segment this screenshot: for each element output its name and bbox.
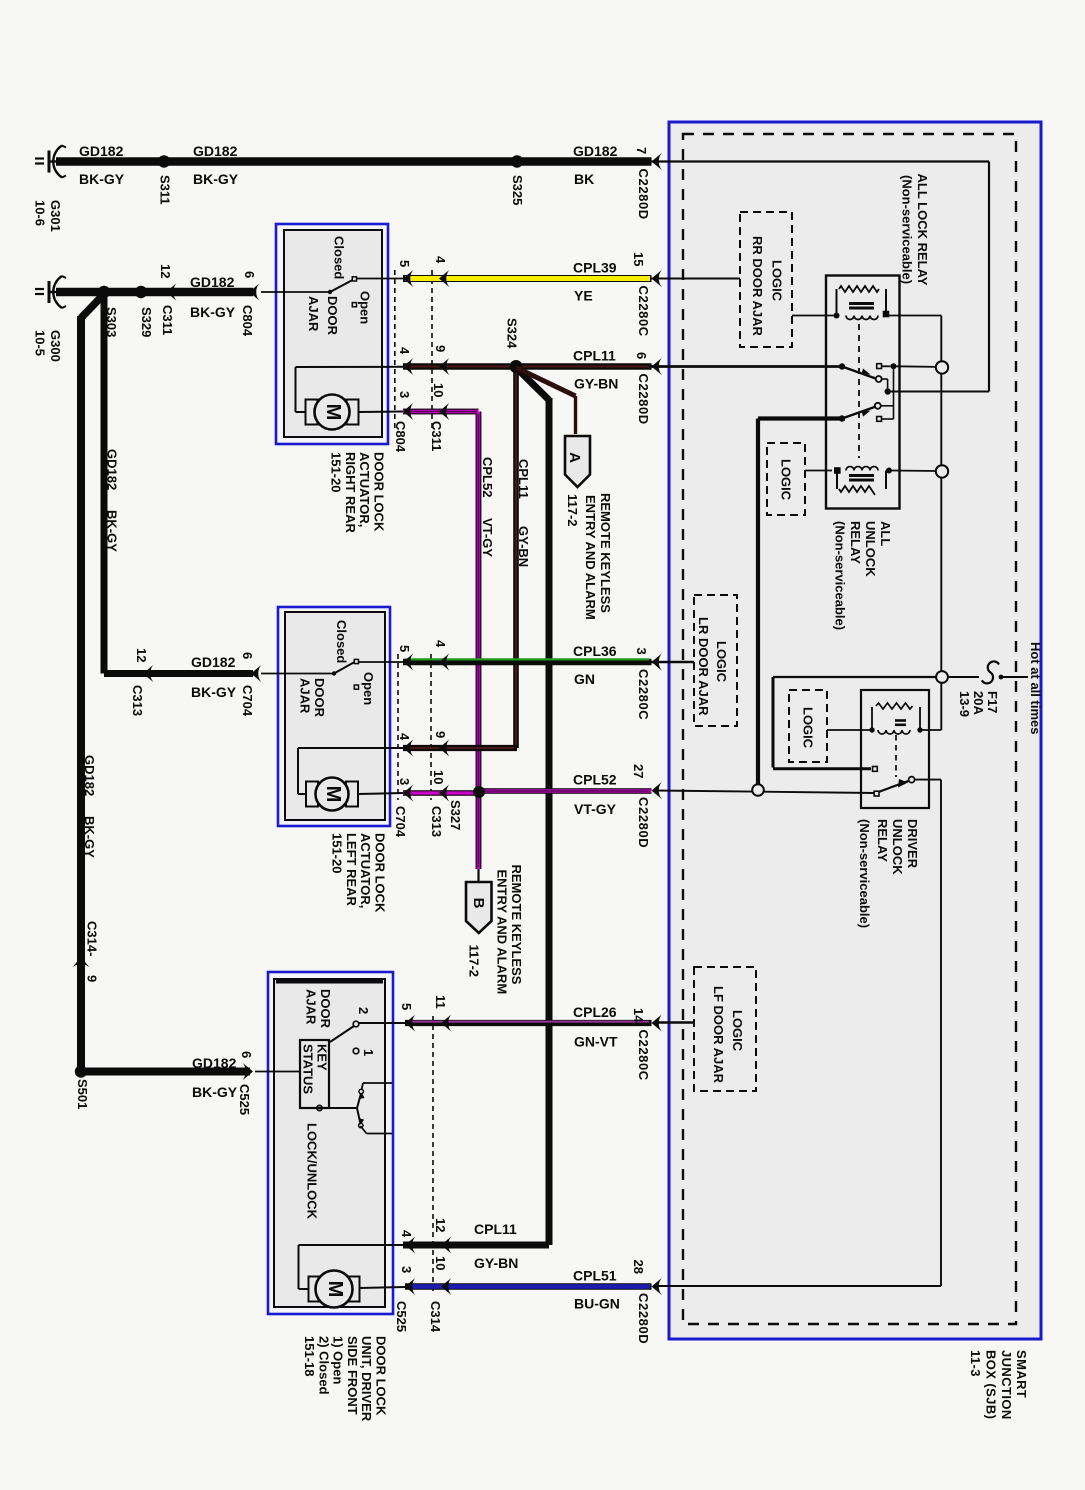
splice S329 <box>135 286 154 338</box>
all lock relay switch <box>839 363 938 388</box>
label CPL11 GY-BN <box>573 348 618 392</box>
svg-text:9: 9 <box>433 731 448 738</box>
svg-text:G300: G300 <box>48 330 63 362</box>
splice S325 <box>510 155 525 205</box>
svg-text:14: 14 <box>631 1008 646 1023</box>
wire GD182 BK-GY top <box>56 157 652 165</box>
wire CPL36 GN (LR to SJB) <box>403 659 652 662</box>
label C525 C314 below driver <box>394 1301 443 1333</box>
svg-text:CPL11: CPL11 <box>573 348 616 364</box>
label CPL36 GN <box>573 643 617 687</box>
svg-text:CPL11: CPL11 <box>474 1221 517 1237</box>
svg-text:BOX (SJB): BOX (SJB) <box>984 1350 999 1419</box>
svg-text:151-18: 151-18 <box>302 1336 317 1376</box>
wire GD182 into SJB <box>652 162 990 392</box>
svg-text:AJAR: AJAR <box>304 989 319 1025</box>
label REMOTE KEYLESS ENTRY AND ALARM (B) <box>495 865 525 995</box>
label CPL26 GN-VT <box>573 1004 618 1050</box>
logic box (driver unlock relay coil) <box>789 690 827 762</box>
connector arrow C2280D pin 27 <box>631 764 662 848</box>
label ALL UNLOCK RELAY (Non-serviceable) <box>833 521 894 630</box>
wire all-lock coil to bus <box>889 315 941 317</box>
svg-text:Open: Open <box>358 291 373 324</box>
svg-text:UNLOCK: UNLOCK <box>863 521 878 577</box>
svg-text:BK: BK <box>574 171 594 187</box>
svg-text:ACTUATOR,: ACTUATOR, <box>357 452 372 527</box>
svg-text:6: 6 <box>239 1051 254 1058</box>
svg-text:LF DOOR AJAR: LF DOOR AJAR <box>711 986 726 1084</box>
svg-text:UNLOCK: UNLOCK <box>890 819 905 875</box>
svg-text:117-2: 117-2 <box>565 494 580 527</box>
svg-text:DRIVER: DRIVER <box>905 819 920 869</box>
svg-text:VT-GY: VT-GY <box>574 801 617 817</box>
svg-text:GD182: GD182 <box>190 274 235 290</box>
logic box LR DOOR AJAR <box>694 595 737 726</box>
label SMART JUNCTION BOX (SJB) 11-3 <box>968 1350 1029 1420</box>
svg-text:CPL26: CPL26 <box>573 1004 617 1020</box>
svg-text:ENTRY AND ALARM: ENTRY AND ALARM <box>495 870 510 995</box>
svg-text:ACTUATOR,: ACTUATOR, <box>358 833 373 908</box>
driver unlock relay switch <box>873 767 915 797</box>
svg-text:C314-: C314- <box>85 921 100 956</box>
svg-text:4: 4 <box>433 256 448 264</box>
pin arrow 4 (driver) <box>399 1230 416 1254</box>
svg-text:BK-GY: BK-GY <box>105 510 120 552</box>
svg-text:S311: S311 <box>158 175 173 205</box>
smart junction box (SJB) outline <box>669 122 1041 1339</box>
svg-text:10: 10 <box>433 1256 448 1270</box>
label DOOR LOCK ACTUATOR LEFT REAR 151-20 <box>330 833 388 913</box>
driver unlock relay coil K3 <box>869 703 922 734</box>
svg-text:BK-GY: BK-GY <box>193 171 239 187</box>
wire CPL39 YE yellow <box>403 275 652 282</box>
svg-text:28: 28 <box>631 1260 646 1274</box>
label G301 10-6 <box>33 200 64 232</box>
terminal ring (all lock) <box>936 361 948 373</box>
svg-text:LEFT REAR: LEFT REAR <box>344 833 359 907</box>
svg-text:S327: S327 <box>448 800 463 830</box>
label DOOR LOCK ACTUATOR RIGHT REAR 151-20 <box>329 452 387 534</box>
svg-text:5: 5 <box>397 645 412 652</box>
ground G301 <box>35 146 66 178</box>
label GD182 BK-GY (driver) <box>192 1055 238 1100</box>
label CPL52 VT-GY vertical <box>480 457 495 557</box>
svg-text:6: 6 <box>242 271 257 278</box>
svg-text:DOOR: DOOR <box>318 989 333 1029</box>
thick wire all-unlock switch to CPL52 ring <box>758 419 845 785</box>
svg-text:C313: C313 <box>429 806 444 837</box>
svg-text:12: 12 <box>158 264 173 278</box>
svg-text:LOCK/UNLOCK: LOCK/UNLOCK <box>305 1123 320 1220</box>
svg-text:C311: C311 <box>160 305 175 335</box>
motor M (driver) <box>309 1271 360 1308</box>
splice S501 <box>75 1065 90 1109</box>
svg-text:DOOR: DOOR <box>312 678 327 718</box>
svg-text:7: 7 <box>634 147 649 154</box>
relay box DRIVER UNLOCK <box>861 690 929 808</box>
svg-text:117-2: 117-2 <box>467 945 482 978</box>
connector arrow C311 pin 12 <box>158 264 177 335</box>
svg-text:27: 27 <box>631 764 646 778</box>
svg-text:UNIT, DRIVER: UNIT, DRIVER <box>359 1336 374 1422</box>
svg-text:GD182: GD182 <box>191 654 236 670</box>
label GD182 BK-GY (LR) <box>191 654 237 700</box>
connector arrow C525 pin 6 (driver) <box>237 1051 254 1115</box>
svg-text:BK-GY: BK-GY <box>192 1084 238 1100</box>
wire CPL52 to SJB <box>479 789 652 793</box>
svg-text:C525: C525 <box>394 1301 409 1332</box>
svg-text:C2280D: C2280D <box>636 169 651 220</box>
fuse ring terminal <box>936 671 948 683</box>
label DOOR LOCK UNIT DRIVER SIDE FRONT <box>302 1336 389 1422</box>
label GD182 BK-GY (1) <box>79 143 125 187</box>
svg-text:F17: F17 <box>985 691 1000 713</box>
svg-text:GD182: GD182 <box>192 1055 237 1071</box>
wire GD182 far-left vertical <box>78 294 250 1072</box>
label CPL11 GY-BN vertical <box>516 459 531 567</box>
label GD182 BK-GY vertical1 <box>105 449 120 552</box>
connector arrow C2280D pin 7 <box>634 147 662 220</box>
driver motor loop wires <box>299 1245 407 1289</box>
label DOOR AJAR (LR) <box>298 678 327 718</box>
wire stub to connector B <box>477 869 479 882</box>
wire GD182 vertical to LR <box>104 294 253 674</box>
KEY STATUS box <box>300 1040 330 1108</box>
svg-text:C2280C: C2280C <box>636 669 651 720</box>
svg-text:151-20: 151-20 <box>329 452 344 492</box>
pin arrow 3 (driver) <box>399 1266 416 1295</box>
driver box top thick border <box>276 980 383 984</box>
wire GD182 BK-GY second <box>56 288 253 296</box>
svg-text:C804: C804 <box>240 305 255 337</box>
svg-text:C704: C704 <box>393 806 408 838</box>
motor M (LR) <box>306 778 358 811</box>
wire CPL11 GY-BN (LR motor) <box>403 745 517 751</box>
ground G300 <box>35 276 66 308</box>
label GD182 BK-GY (2) <box>193 143 239 187</box>
svg-text:GD182: GD182 <box>193 143 238 159</box>
wire CPL36 to logic LR <box>652 661 695 663</box>
pin arrow 9 (LR) <box>433 731 450 757</box>
connector B pentagon <box>466 882 492 933</box>
junction dot and wire to GD182 return <box>885 388 990 394</box>
pin arrow 10 (RR) <box>431 383 450 420</box>
wire CPL52 vertical <box>476 412 481 870</box>
svg-text:GY-BN: GY-BN <box>474 1255 518 1271</box>
svg-text:11: 11 <box>433 995 448 1009</box>
svg-text:YE: YE <box>574 288 593 304</box>
connector arrow C704 pin 6 <box>240 652 262 717</box>
ring junction on CPL52 wire <box>752 784 764 796</box>
svg-text:1: 1 <box>361 1049 376 1056</box>
svg-text:M: M <box>322 786 344 803</box>
svg-text:C804: C804 <box>393 421 408 453</box>
label CPL52 VT-GY <box>573 772 617 818</box>
svg-text:C314: C314 <box>428 1301 443 1333</box>
label CPL39 YE <box>573 260 617 304</box>
label GD182 BK at SJB <box>573 143 618 187</box>
splice S311 <box>158 155 173 204</box>
svg-text:4: 4 <box>397 733 412 741</box>
svg-text:BK-GY: BK-GY <box>191 684 237 700</box>
splice S303 <box>98 286 119 338</box>
driver lock/unlock switch <box>317 1083 392 1134</box>
pin arrow 11 (driver) <box>433 995 452 1032</box>
connector arrow C804 pin 6 <box>240 271 260 337</box>
svg-text:AJAR: AJAR <box>298 678 313 714</box>
label G300 10-5 <box>33 330 64 362</box>
wire CPL11 branch to driver (diagonal) <box>403 368 549 1246</box>
all unlock relay coil K2 <box>835 467 892 496</box>
pin arrow 4 (LR motor) <box>397 733 414 757</box>
svg-text:LOGIC: LOGIC <box>779 459 794 501</box>
svg-text:C525: C525 <box>237 1084 252 1115</box>
label F17 20A 13-9 <box>957 691 1000 717</box>
svg-text:S325: S325 <box>510 175 525 205</box>
svg-text:STATUS: STATUS <box>301 1044 316 1094</box>
connector dashed line C804 <box>394 270 396 432</box>
svg-text:DOOR: DOOR <box>325 296 340 336</box>
svg-text:5: 5 <box>397 260 412 267</box>
relay box ALL LOCK / ALL UNLOCK <box>826 276 900 509</box>
svg-text:JUNCTION: JUNCTION <box>999 1350 1014 1420</box>
svg-text:ALL LOCK RELAY: ALL LOCK RELAY <box>915 174 930 286</box>
svg-text:M: M <box>324 1281 346 1298</box>
wire CPL26 GN-VT <box>359 1022 652 1023</box>
svg-text:GD182: GD182 <box>79 143 124 159</box>
svg-text:DOOR LOCK: DOOR LOCK <box>372 452 387 532</box>
svg-text:9: 9 <box>433 345 448 352</box>
wire logic to driver relay coil <box>827 729 870 731</box>
svg-text:A: A <box>566 452 583 463</box>
label GD182 BK-GY (3) <box>190 274 236 320</box>
wire driver coil to bus <box>923 729 942 731</box>
svg-text:REMOTE KEYLESS: REMOTE KEYLESS <box>509 865 524 985</box>
svg-text:20A: 20A <box>971 691 986 715</box>
svg-text:CPL11: CPL11 <box>516 459 531 499</box>
svg-text:AJAR: AJAR <box>306 296 321 332</box>
svg-text:VT-GY: VT-GY <box>480 518 495 557</box>
svg-text:C2280C: C2280C <box>636 1030 651 1081</box>
connector arrow C2280C pin 3 <box>634 648 662 721</box>
svg-text:LR DOOR AJAR: LR DOOR AJAR <box>696 617 711 716</box>
LR door ajar switch <box>261 659 403 689</box>
svg-text:C2280D: C2280D <box>636 374 651 425</box>
svg-text:4: 4 <box>397 347 412 355</box>
svg-text:SIDE FRONT: SIDE FRONT <box>345 1336 360 1415</box>
svg-text:C2280D: C2280D <box>636 1293 651 1344</box>
relay armature dashed link <box>858 324 860 458</box>
svg-text:10: 10 <box>431 383 446 397</box>
svg-text:4: 4 <box>433 640 448 648</box>
label C704 C313 S327 below LR <box>393 800 463 838</box>
all unlock relay switch <box>839 366 894 421</box>
svg-text:Open: Open <box>361 672 376 705</box>
svg-text:10: 10 <box>431 770 446 784</box>
wire CPL39 to logic RR <box>652 278 741 280</box>
splice S327 <box>473 786 485 798</box>
svg-text:S324: S324 <box>505 318 520 349</box>
pin arrow 4 (RR) <box>433 256 450 287</box>
svg-text:2: 2 <box>356 1007 371 1014</box>
bus wire from all-lock coil down to driver relay <box>940 316 942 731</box>
svg-text:GN: GN <box>574 671 595 687</box>
svg-text:10-6: 10-6 <box>33 200 48 226</box>
driver door ajar switch <box>330 1021 405 1054</box>
label DOOR AJAR (RR) <box>306 296 340 336</box>
svg-text:DOOR LOCK: DOOR LOCK <box>373 833 388 913</box>
label GD182 BK-GY vertical2 <box>82 755 97 858</box>
door lock actuator right rear box <box>276 224 388 444</box>
connector arrow C2280D pin 6 <box>634 352 662 425</box>
label ALL LOCK RELAY (Non-serviceable) <box>900 174 931 286</box>
connector dashed line C704 <box>397 654 399 800</box>
pin arrow 5 (driver) <box>399 1003 416 1032</box>
svg-text:C2280C: C2280C <box>636 286 651 337</box>
svg-text:B: B <box>470 898 487 909</box>
svg-text:S329: S329 <box>139 307 154 337</box>
wire key status to C525 <box>255 1071 300 1073</box>
splice S324 <box>505 318 523 373</box>
svg-text:12: 12 <box>433 1218 448 1232</box>
LR motor loop wires <box>298 748 404 794</box>
svg-text:3: 3 <box>397 778 412 785</box>
logic box RR DOOR AJAR <box>740 212 792 347</box>
svg-text:BK-GY: BK-GY <box>82 816 97 858</box>
svg-text:3: 3 <box>634 648 649 655</box>
svg-text:3: 3 <box>397 391 412 398</box>
svg-text:3: 3 <box>399 1266 414 1273</box>
svg-text:CPL39: CPL39 <box>573 260 617 276</box>
svg-text:6: 6 <box>240 652 255 659</box>
pin arrow 9 (RR) <box>433 345 450 375</box>
svg-text:M: M <box>322 404 344 421</box>
wire CPL26 to logic LF <box>656 1021 695 1023</box>
svg-text:CPL36: CPL36 <box>573 643 617 659</box>
svg-text:GY-BN: GY-BN <box>574 376 618 392</box>
connector arrow C313 pin 12 <box>130 648 154 716</box>
svg-text:RELAY: RELAY <box>848 521 863 564</box>
wire CPL11 GY-BN (RR to SJB) <box>403 363 652 370</box>
svg-text:15: 15 <box>631 252 646 266</box>
pin arrow 5 (RR) <box>397 260 414 287</box>
label CPL51 BU-GN <box>573 1268 620 1312</box>
pin arrow 4b (RR) <box>397 347 414 375</box>
connector A pentagon <box>565 436 590 487</box>
svg-text:C2280D: C2280D <box>636 797 651 848</box>
svg-text:1) Open: 1) Open <box>331 1336 346 1384</box>
svg-text:Hot at all times: Hot at all times <box>1028 642 1043 734</box>
svg-text:LOGIC: LOGIC <box>801 707 816 749</box>
svg-text:GN-VT: GN-VT <box>574 1034 618 1050</box>
svg-text:G301: G301 <box>48 200 63 232</box>
svg-text:S501: S501 <box>75 1079 90 1109</box>
svg-text:(Non-serviceable): (Non-serviceable) <box>857 819 872 928</box>
svg-text:11-3: 11-3 <box>968 1350 983 1377</box>
svg-text:GD182: GD182 <box>82 755 97 796</box>
RR door ajar switch <box>261 277 403 307</box>
svg-text:(Non-serviceable): (Non-serviceable) <box>900 175 915 284</box>
svg-text:(Non-serviceable): (Non-serviceable) <box>833 521 848 630</box>
motor M (RR) <box>306 395 359 430</box>
svg-text:GD182: GD182 <box>573 143 618 159</box>
SJB inner dashed border <box>683 134 1016 1324</box>
svg-text:151-20: 151-20 <box>330 833 345 873</box>
wire stub to connector A <box>516 368 576 435</box>
svg-text:BU-GN: BU-GN <box>574 1296 620 1312</box>
svg-text:CPL51: CPL51 <box>573 1268 617 1284</box>
svg-text:ALL: ALL <box>878 521 893 546</box>
connector dashed line C311 <box>431 270 433 432</box>
driver relay armature dashed link <box>895 735 897 777</box>
pin arrow 5 (LR) <box>397 645 414 671</box>
label C804 C311 below RR <box>393 421 444 453</box>
wire CPL52 into SJB to driver relay <box>656 791 875 794</box>
svg-text:RELAY: RELAY <box>875 819 890 862</box>
pin arrow 3 (RR) <box>397 391 414 420</box>
connector dashed line C313-b <box>430 654 432 800</box>
svg-text:2) Closed: 2) Closed <box>316 1336 331 1395</box>
connector arrow C2280D pin 28 <box>631 1260 662 1345</box>
svg-text:13-9: 13-9 <box>957 691 972 717</box>
connector arrow C2280C pin 15 <box>631 252 662 337</box>
svg-text:LOGIC: LOGIC <box>714 641 729 683</box>
fuse F17 20A <box>948 661 1028 683</box>
wire logic to all-unlock coil <box>805 470 832 472</box>
svg-text:GD182: GD182 <box>105 449 120 490</box>
terminal ring (all unlock) <box>936 465 948 477</box>
door lock unit driver side front box <box>268 972 393 1314</box>
svg-text:REMOTE KEYLESS: REMOTE KEYLESS <box>598 493 613 613</box>
wire CPL52 VT-GY (RR motor) <box>403 409 479 414</box>
connector dashed line C314-b <box>432 1016 434 1292</box>
svg-text:LOGIC: LOGIC <box>730 1010 745 1052</box>
svg-text:Closed: Closed <box>334 620 349 663</box>
connector arrow C2280C pin 14 <box>631 1008 662 1081</box>
svg-text:C311: C311 <box>429 421 444 451</box>
connector arrow C314 pin 9 (vertical) <box>72 921 99 982</box>
svg-text:CPL52: CPL52 <box>480 457 495 497</box>
pin arrow 12 (driver) <box>433 1218 452 1254</box>
wire driver relay output to CPL51 <box>656 780 942 1286</box>
svg-text:BK-GY: BK-GY <box>79 171 125 187</box>
svg-text:LOGIC: LOGIC <box>770 260 785 302</box>
svg-text:C313: C313 <box>130 685 145 716</box>
power feed wire from fuse to driver relay contact <box>773 677 936 769</box>
logic box LF DOOR AJAR <box>694 967 756 1091</box>
svg-text:C704: C704 <box>240 685 255 717</box>
svg-text:Closed: Closed <box>332 236 347 279</box>
svg-text:12: 12 <box>134 648 149 662</box>
svg-text:6: 6 <box>634 352 649 359</box>
wire CPL11 to all-lock switch <box>652 365 840 368</box>
label DRIVER UNLOCK RELAY (Non-serviceable) <box>857 819 920 928</box>
label CPL11 GY-BN (driver) <box>474 1221 518 1271</box>
svg-text:ENTRY AND ALARM: ENTRY AND ALARM <box>583 495 598 620</box>
pin arrow 3 (LR) <box>397 778 414 802</box>
svg-text:SMART: SMART <box>1014 1350 1029 1398</box>
svg-text:CPL52: CPL52 <box>573 772 617 788</box>
wire logic to all-lock coil <box>792 315 834 317</box>
svg-text:9: 9 <box>85 975 100 982</box>
wire all-unlock coil to bus ring <box>892 470 936 473</box>
label REMOTE KEYLESS ENTRY AND ALARM (A) <box>583 493 613 620</box>
wire CPL11 vertical to LR <box>513 367 519 749</box>
wire CPL51 BU-GN <box>405 1283 652 1290</box>
pin arrow 4 (LR) <box>433 640 450 671</box>
pin arrow 10 (driver) <box>433 1256 452 1295</box>
door lock actuator left rear box <box>278 607 390 826</box>
